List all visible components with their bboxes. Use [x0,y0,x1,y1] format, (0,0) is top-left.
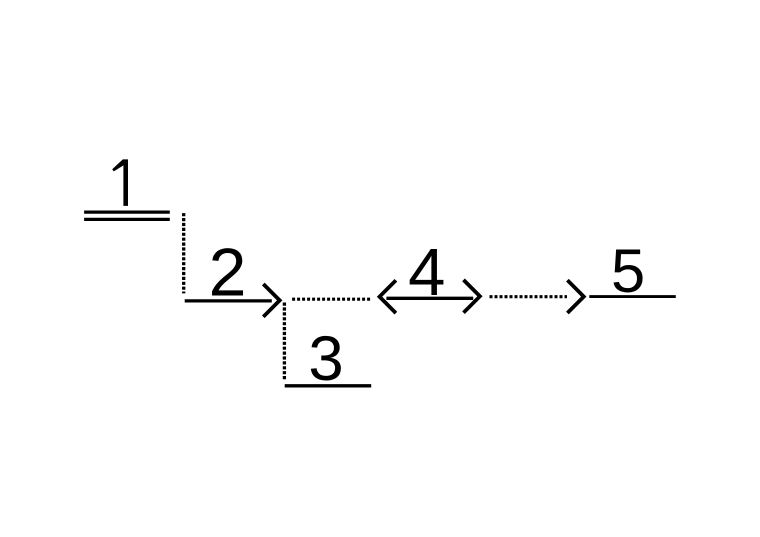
label 1 [112,159,128,206]
dotted vertical wire 2-3 [283,303,286,381]
svg-text:3: 3 [308,324,343,394]
right arrowhead of 4 [464,280,480,313]
line level 2 [185,299,272,302]
dotted vertical wire 1-2 [182,213,185,293]
arrowhead before 5 [567,280,583,313]
arrowhead after 2 [263,284,279,317]
dotted horizontal wire 2-4 [292,298,371,301]
dotted horizontal wire 4-5 [490,295,568,298]
double line level 1 [84,212,170,219]
left arrowhead of 4 [380,280,396,313]
svg-text:2: 2 [209,234,247,310]
line level 5 [589,295,676,298]
svg-text:4: 4 [408,235,445,310]
line level 3 [285,384,372,387]
line level 4 [386,297,473,300]
